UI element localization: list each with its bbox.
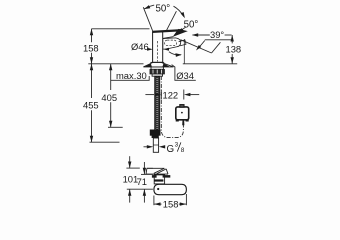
arrow G38 right pointing left (159, 145, 165, 148)
wire 158 bottom right extension (185, 194, 187, 205)
wire top reference line y=28.8 (92, 28, 150, 30)
top view spout plate diagonal 2 (157, 169, 166, 174)
arrow D46 right pointing left at body (163, 48, 169, 51)
angle arc 39 with arrow (198, 41, 205, 49)
wire radial line right of 50 arc (167, 11, 177, 30)
dimension 158 bottom line left segment + arrow (154, 203, 161, 205)
escutcheon shading left (145, 63, 152, 66)
wire lever centerline extension (127, 188, 153, 190)
dimension 158 (height) vertical line (91, 29, 93, 64)
plug box top tab (180, 105, 184, 108)
spout outline (163, 38, 181, 49)
svg-text:Ø34: Ø34 (176, 70, 194, 81)
svg-text:405: 405 (101, 92, 117, 103)
dimension 405 vertical line (110, 64, 112, 90)
lever handle tip wedge (173, 29, 188, 37)
arrow G38 left pointing right (147, 145, 153, 148)
top view spout plate right edge (166, 169, 168, 174)
wire vertical extension from lever tip (183, 39, 185, 64)
top view escutcheon dark band left (152, 175, 157, 178)
arrowhead lever-lift arc right end (175, 53, 182, 57)
arrow up 158 top (90, 29, 93, 36)
svg-text:122: 122 (163, 90, 179, 101)
arrow down 138 (231, 57, 234, 64)
escutcheon shading right (163, 63, 170, 66)
top view lever (154, 184, 187, 194)
wire short leader second 50 (181, 27, 185, 30)
top view base dark band lower (154, 179, 163, 181)
wire 71 tick (141, 173, 153, 175)
svg-text:158: 158 (83, 42, 99, 53)
top view escutcheon dark band right (163, 175, 171, 178)
arrow 122 right pointing left (184, 93, 190, 96)
top view base outline (154, 175, 164, 184)
dashed waterway centerline in body (157, 41, 159, 62)
aerator box at spout outlet (179, 40, 186, 46)
shank washer (151, 67, 163, 69)
plug pin below box (182, 120, 184, 125)
wire 405 reference tick y=127.3 (108, 126, 123, 128)
svg-text:138: 138 (226, 44, 242, 55)
arrow down 158 bottom (90, 57, 93, 64)
mounting nut (150, 69, 165, 74)
arrowhead 50 arc right (181, 12, 185, 18)
svg-text:158: 158 (163, 199, 179, 210)
top view spout plate top line (147, 167, 165, 169)
wire D34 leader (172, 65, 196, 81)
svg-text:3: 3 (175, 141, 179, 148)
svg-text:71: 71 (137, 176, 147, 187)
arrowhead 39 arc (196, 45, 201, 51)
wire lever underside to body (163, 37, 173, 39)
wire 138 bottom reference line (183, 63, 237, 65)
arrow up 405 top (109, 64, 112, 71)
dimension 158 bottom line right segment + arrow (179, 203, 186, 205)
hose end connector (150, 130, 160, 135)
flexible hose braided (155, 76, 160, 130)
wire extension of spout-top line (147, 167, 153, 169)
svg-text:max.30: max.30 (116, 70, 147, 81)
top view spout plate left edge (145, 168, 148, 174)
angle 50 arc right segment (174, 6, 184, 16)
top view spout plate bottom line (146, 173, 168, 175)
dashed inner waterway of spout (165, 40, 177, 46)
arrow D46 left pointing right at body (147, 48, 153, 51)
escutcheon base plate (143, 62, 173, 67)
svg-text:G: G (167, 144, 175, 155)
wire 122 left tick (160, 90, 162, 100)
dimension 101 top arrow (129, 156, 131, 168)
wire 122 right tick (183, 90, 185, 100)
arrowhead leader of second 50 pointing to lever tip (178, 28, 184, 33)
top view lever dot (157, 188, 159, 190)
wire radial line left of 50 arc (143, 7, 152, 31)
svg-text:455: 455 (83, 100, 99, 111)
arrow down 405 bottom (109, 121, 112, 128)
angle arc lever-lift under spout (169, 52, 181, 55)
arrowhead at lever tip on line A (192, 33, 198, 36)
cable dash-dot path to plug (161, 76, 183, 138)
lower shank band (152, 74, 162, 76)
arrow up 455 top (90, 64, 93, 71)
faucet body (side view) (153, 32, 163, 62)
wire escutcheon top line (150, 61, 164, 63)
wire max.30 underline leader (111, 76, 149, 80)
wire stream line 2 (212, 42, 221, 53)
wire 158 bottom left extension (153, 196, 155, 206)
svg-text:8: 8 (181, 147, 185, 154)
svg-text:39°: 39° (210, 29, 224, 40)
dimension 122 (145, 94, 154, 96)
arrowhead 50 arc left (144, 5, 150, 9)
G3/8 fitting (153, 138, 158, 152)
arrow down 455 bottom (90, 136, 93, 143)
wire hose-end reference line y=142.2 (90, 141, 120, 143)
wire stream line 1 (181, 40, 212, 53)
lever handle top bar (152, 30, 183, 32)
plug box foot right (186, 119, 189, 121)
svg-text:Ø46: Ø46 (131, 41, 149, 52)
arrow 122 left pointing right (155, 93, 161, 96)
arrow up 138 (231, 35, 234, 42)
wire 39 reference line A from lever tip (193, 34, 210, 36)
dimension 455 vertical line (91, 64, 93, 98)
top view spout plate diagonal 1 (154, 168, 164, 173)
dimension 138 vertical line (231, 35, 233, 43)
plug box foot left (176, 119, 179, 121)
dimension 101 bottom arrow (129, 189, 131, 202)
dimension 71 bottom arrow (143, 189, 145, 202)
wire mounting surface line y=63.8 (88, 63, 143, 65)
plug box (176, 107, 189, 120)
wire 101 top tick (126, 167, 139, 169)
dimension 71 top arrow (143, 162, 145, 174)
angle 50 arc (handle swivel) left segment (144, 5, 154, 9)
svg-text:50°: 50° (184, 20, 199, 31)
wire 39 reference line B (205, 39, 232, 41)
svg-text:50°: 50° (156, 4, 171, 15)
plug box dot (181, 112, 183, 114)
